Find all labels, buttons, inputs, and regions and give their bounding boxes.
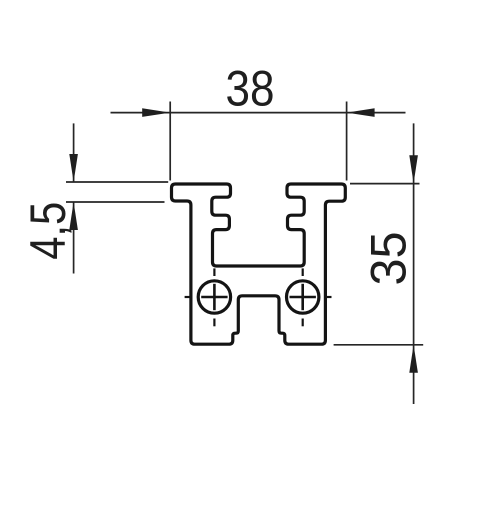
dimension 35 arrow bottom: [409, 345, 418, 373]
dimension 35 extension line top: [350, 183, 420, 185]
screw hole right crosshair horizontal: [290, 296, 316, 299]
svg-text:38: 38: [226, 61, 275, 117]
svg-text:35: 35: [361, 232, 417, 286]
dimension 4,5 line upper: [73, 123, 75, 182]
dimension 35 arrow top: [409, 155, 418, 183]
screw hole right centerline dash bottom: [302, 319, 304, 327]
screw hole left centerline dash top: [213, 268, 215, 276]
dimension 38 extension line right: [346, 102, 348, 181]
dimension 35 extension line bottom: [334, 344, 424, 346]
dimension 35 line: [413, 123, 415, 404]
dimension 4,5 line lower: [73, 202, 75, 274]
screw hole right centerline dash right: [325, 296, 332, 298]
screw hole left crosshair horizontal: [201, 296, 227, 299]
svg-text:4,5: 4,5: [20, 202, 76, 260]
screw hole right crosshair vertical: [301, 284, 304, 310]
profile outline: [172, 184, 346, 344]
dimension 38 line: [111, 112, 406, 114]
dimension 4,5 extension line top: [66, 181, 168, 183]
screw hole right centerline dash top: [302, 268, 304, 276]
screw hole left centerline dash bottom: [213, 319, 215, 327]
dimension 4,5 extension line bottom: [66, 201, 165, 203]
dimension 4,5 arrow top: [69, 154, 78, 182]
dimension 38 extension line left: [169, 102, 171, 181]
dimension 38 arrow left: [142, 108, 170, 117]
dimension 38 arrow right: [347, 108, 375, 117]
dimension 4,5 arrow bottom: [69, 202, 78, 230]
screw hole left circle: [198, 281, 230, 313]
screw hole right circle: [287, 281, 319, 313]
screw hole left crosshair vertical: [213, 284, 216, 310]
screw hole left centerline dash left: [185, 296, 193, 298]
